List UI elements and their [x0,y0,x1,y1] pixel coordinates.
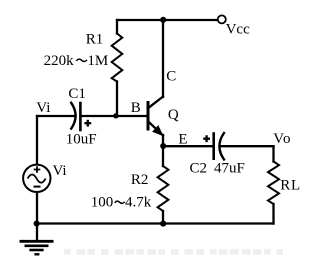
wire R2 top stub [162,146,164,166]
wire top rail [117,19,218,21]
capacitor C1 plus sign [84,120,91,127]
node dot bottom/ground [34,220,40,226]
wire collector vertical [162,20,164,97]
terminal Vcc circle [218,15,226,23]
label R2 value 100~4.7k [91,194,152,210]
capacitor C1 curved plate [71,103,75,129]
transistor Q emitter diagonal [148,121,163,135]
wire base left segment (Vi input to C1) [37,115,75,117]
wire C1 to base [82,115,147,117]
transistor Q base bar [147,101,150,131]
transistor Q emitter arrow [153,126,163,135]
svg-text:C2: C2 [190,161,208,177]
resistor R2 [158,166,169,211]
svg-text:R1: R1 [86,31,104,47]
transistor Q collector diagonal [148,97,163,109]
wire R1 bottom stub [116,82,118,117]
svg-text:RL: RL [280,177,301,193]
svg-text:Vcc: Vcc [226,21,250,37]
wire C2 to output [220,145,274,147]
capacitor C2 straight plate [212,134,215,159]
svg-text:10uF: 10uF [66,131,97,147]
svg-text:100: 100 [91,194,114,210]
wire RL bottom stub [272,204,274,224]
svg-text:Vi: Vi [36,100,50,116]
svg-text:C1: C1 [68,86,86,102]
svg-text:Q: Q [168,107,179,123]
svg-text:4.7k: 4.7k [125,194,152,210]
node dot base/R1 [113,113,118,118]
wire source bottom [36,192,38,223]
wire R1 top stub [116,20,118,34]
svg-text:C: C [166,69,176,85]
wire emitter stub [162,135,164,146]
source Vi circle [23,165,50,192]
node dot bottom/R2 [160,221,166,227]
node dot emitter E [160,143,166,149]
svg-text:E: E [178,131,187,147]
node dot top rail/collector [160,17,166,23]
ground [20,241,54,254]
svg-text:R2: R2 [131,172,149,188]
wire RL top stub [272,146,274,161]
resistor R1 [112,34,123,82]
watermark [64,249,283,255]
resistor RL [268,162,279,205]
wire emitter to C2 [163,145,212,147]
wire R2 bottom stub [162,211,164,224]
svg-text:Vi: Vi [53,163,67,179]
label R1 value 220k~1M [44,53,109,69]
wire input left vertical [36,116,38,164]
capacitor C2 plus sign [203,135,210,142]
svg-text:Vo: Vo [273,131,291,147]
capacitor C2 curved plate [219,133,224,160]
svg-text:220k: 220k [44,53,75,69]
svg-text:47uF: 47uF [214,161,245,177]
ground stub [36,224,38,241]
capacitor C1 straight plate [79,103,82,130]
source Vi symbol marks [28,166,46,186]
svg-text:B: B [131,100,141,116]
wire bottom rail [37,222,274,224]
svg-text:1M: 1M [87,53,108,69]
